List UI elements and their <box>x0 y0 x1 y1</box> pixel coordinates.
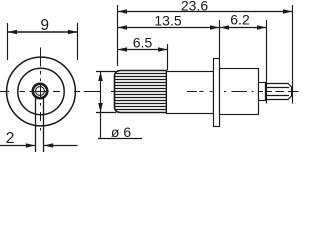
svg-text:6.2: 6.2 <box>230 12 250 28</box>
svg-text:2: 2 <box>6 130 15 147</box>
svg-text:6.5: 6.5 <box>133 35 153 51</box>
svg-text:23.6: 23.6 <box>181 0 208 13</box>
svg-text:ø 6: ø 6 <box>111 124 131 140</box>
svg-text:9: 9 <box>40 17 49 34</box>
svg-text:13.5: 13.5 <box>154 12 181 28</box>
